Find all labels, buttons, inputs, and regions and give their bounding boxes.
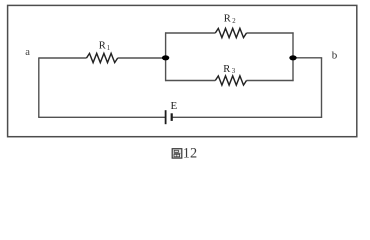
svg-text:12: 12 bbox=[183, 146, 197, 162]
svg-text:E: E bbox=[171, 100, 178, 112]
svg-text:b: b bbox=[332, 50, 338, 62]
svg-text:3: 3 bbox=[232, 68, 236, 75]
svg-text:R: R bbox=[224, 14, 231, 25]
svg-text:R: R bbox=[223, 64, 230, 75]
svg-text:2: 2 bbox=[232, 18, 236, 25]
svg-text:1: 1 bbox=[107, 45, 110, 52]
svg-text:R: R bbox=[99, 40, 106, 51]
svg-text:a: a bbox=[25, 47, 30, 58]
